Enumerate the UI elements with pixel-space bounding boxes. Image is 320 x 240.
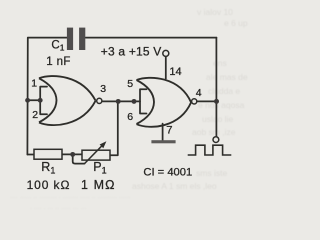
svg-text:6: 6 — [127, 111, 133, 123]
svg-text:uslao lie: uslao lie — [202, 114, 233, 124]
svg-text:3: 3 — [100, 83, 106, 95]
svg-text:14: 14 — [169, 66, 181, 78]
svg-text:ashose A 1 sm els ,leo: ashose A 1 sm els ,leo — [132, 181, 217, 191]
svg-text:7: 7 — [166, 125, 172, 137]
svg-text:.... ...... .. ......... . ...: .... ...... .. ......... . ........ ....… — [10, 193, 131, 200]
svg-text:ale mas de: ale mas de — [206, 72, 248, 82]
svg-text:sms iste: sms iste — [196, 168, 227, 178]
svg-text:+3 a +15 V: +3 a +15 V — [101, 44, 162, 58]
svg-text:aob sm ,ize: aob sm ,ize — [192, 127, 236, 137]
svg-text:5: 5 — [127, 78, 133, 90]
svg-text:. .... . ... .. ..... ... ...: . .... . ... .. ..... ... ... — [30, 204, 86, 211]
svg-text:1: 1 — [31, 78, 37, 90]
svg-text:2: 2 — [32, 109, 38, 121]
svg-text:100 kΩ: 100 kΩ — [27, 178, 71, 192]
svg-text:1 MΩ: 1 MΩ — [81, 178, 116, 192]
svg-text:ens: ens — [213, 58, 227, 68]
svg-text:v ialov 10: v ialov 10 — [197, 7, 233, 17]
svg-text:1 nF: 1 nF — [46, 56, 71, 68]
svg-text:CI = 4001: CI = 4001 — [143, 167, 192, 179]
svg-text:4: 4 — [196, 87, 202, 99]
svg-text:cludda e: cludda e — [208, 86, 240, 96]
svg-text:e 6 up: e 6 up — [224, 18, 248, 28]
